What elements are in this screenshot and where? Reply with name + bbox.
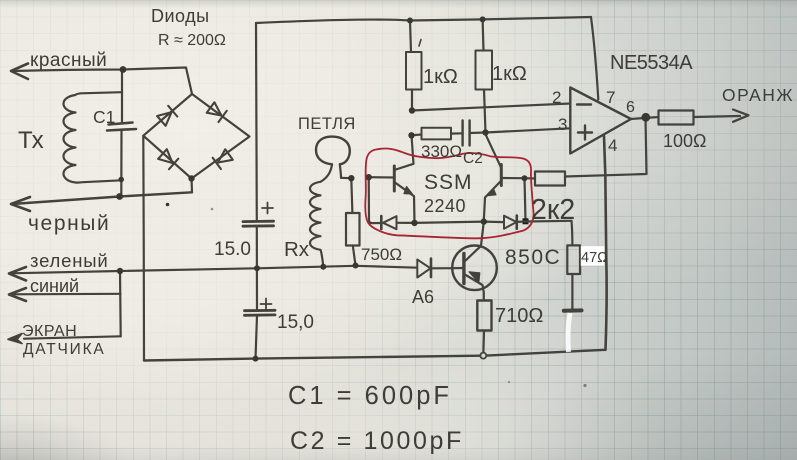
svg-text:ПЕТЛЯ: ПЕТЛЯ [298, 115, 356, 133]
svg-text:ОРАНЖ: ОРАНЖ [722, 85, 794, 105]
svg-text:6: 6 [626, 99, 635, 116]
svg-text:С2 = 1000pF: С2 = 1000pF [290, 427, 464, 455]
svg-text:2: 2 [552, 88, 561, 107]
svg-text:черный: черный [28, 212, 110, 235]
svg-text:С1 = 600pF: С1 = 600pF [288, 382, 452, 410]
svg-text:2240: 2240 [424, 196, 466, 216]
svg-text:С2: С2 [463, 150, 483, 167]
svg-text:зеленый: зеленый [30, 250, 108, 271]
svg-text:Тх: Тх [18, 127, 44, 154]
svg-text:4: 4 [608, 136, 617, 155]
svg-text:Dиоды: Dиоды [151, 6, 210, 26]
svg-text:7: 7 [606, 88, 615, 107]
svg-text:100Ω: 100Ω [663, 131, 707, 151]
svg-text:850С: 850С [505, 246, 561, 269]
svg-text:А6: А6 [412, 287, 434, 307]
svg-text:R ≈ 200Ω: R ≈ 200Ω [158, 32, 226, 49]
svg-text:SSM: SSM [424, 171, 473, 194]
svg-text:15,0: 15,0 [277, 312, 314, 333]
svg-text:3: 3 [558, 115, 567, 134]
svg-text:2к2: 2к2 [531, 194, 575, 226]
svg-text:47Ω: 47Ω [581, 250, 608, 266]
svg-text:330Ω: 330Ω [421, 142, 462, 161]
svg-text:С1: С1 [93, 107, 115, 127]
svg-text:ЭКРАН: ЭКРАН [22, 323, 77, 340]
svg-text:красный: красный [30, 50, 107, 71]
svg-text:15.0: 15.0 [214, 239, 251, 260]
svg-text:1кΩ: 1кΩ [423, 66, 458, 88]
svg-text:1кΩ: 1кΩ [492, 63, 527, 85]
svg-text:Rx: Rx [284, 238, 310, 261]
svg-text:NE5534A: NE5534A [610, 52, 693, 74]
svg-text:710Ω: 710Ω [495, 305, 543, 327]
svg-text:ДАТЧИКА: ДАТЧИКА [23, 341, 106, 358]
svg-text:синий: синий [30, 276, 79, 296]
svg-text:750Ω: 750Ω [361, 245, 402, 264]
